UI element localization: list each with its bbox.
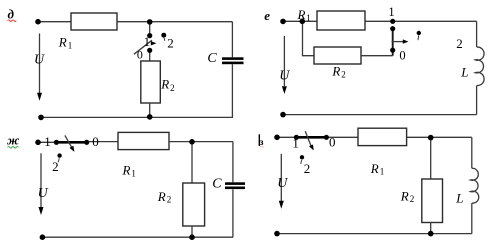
- svg-text:C: C: [207, 51, 217, 66]
- svg-text:U: U: [279, 69, 290, 84]
- svg-text:R: R: [331, 64, 340, 79]
- svg-text:L: L: [460, 64, 468, 79]
- svg-text:1: 1: [306, 13, 311, 23]
- svg-text:U: U: [277, 176, 288, 191]
- svg-text:1: 1: [292, 136, 299, 151]
- svg-text:2: 2: [304, 161, 311, 176]
- svg-text:L: L: [455, 191, 463, 206]
- svg-text:R: R: [297, 7, 306, 22]
- svg-text:1: 1: [144, 35, 150, 49]
- svg-text:е: е: [264, 8, 270, 23]
- svg-text:U: U: [38, 186, 49, 201]
- svg-text:0: 0: [399, 49, 405, 63]
- svg-text:0: 0: [329, 134, 336, 149]
- svg-text:R: R: [370, 161, 379, 176]
- svg-text:0: 0: [137, 47, 143, 61]
- svg-text:2: 2: [167, 194, 172, 204]
- svg-text:R: R: [58, 34, 67, 49]
- svg-text:2: 2: [456, 36, 463, 51]
- svg-text:R: R: [122, 162, 131, 177]
- svg-text:1: 1: [380, 167, 385, 177]
- svg-text:1: 1: [44, 134, 51, 149]
- svg-text:R: R: [400, 188, 409, 203]
- svg-text:C: C: [212, 177, 222, 192]
- svg-text:2: 2: [167, 36, 174, 51]
- svg-text:0: 0: [92, 134, 99, 149]
- svg-text:R: R: [157, 189, 166, 204]
- svg-text:1: 1: [388, 5, 394, 19]
- svg-text:1: 1: [131, 168, 136, 178]
- svg-text:1: 1: [68, 41, 73, 51]
- svg-text:U: U: [34, 53, 45, 68]
- svg-text:R: R: [160, 76, 169, 91]
- svg-text:2: 2: [52, 159, 59, 174]
- svg-text:д: д: [8, 7, 15, 22]
- svg-text:2: 2: [410, 194, 415, 204]
- svg-text:ж: ж: [7, 133, 20, 148]
- svg-text:2: 2: [170, 83, 175, 93]
- svg-text:2: 2: [341, 70, 346, 80]
